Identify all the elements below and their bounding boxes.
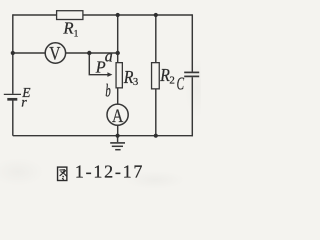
wire top: [13, 14, 193, 16]
svg-text:1-12-17: 1-12-17: [75, 162, 144, 182]
svg-text:1: 1: [74, 30, 79, 40]
wire left upper: [12, 14, 14, 94]
resistor R1: [57, 11, 83, 20]
node dot top R2: [154, 13, 158, 17]
node dot a junction: [116, 51, 120, 55]
wire R3 branch: [117, 15, 119, 136]
svg-text:r: r: [21, 96, 27, 111]
node dot bottom R2: [154, 134, 158, 138]
battery E short plate: [7, 98, 17, 101]
wire right lower: [191, 77, 193, 136]
svg-text:2: 2: [169, 75, 174, 87]
wire bottom: [13, 135, 193, 137]
resistor R2: [152, 63, 160, 89]
svg-text:3: 3: [133, 76, 138, 88]
ground: [110, 136, 125, 150]
voltmeter U-V: [45, 43, 65, 63]
svg-text:a: a: [105, 46, 113, 65]
svg-text:C: C: [177, 73, 185, 93]
svg-text:R: R: [62, 18, 74, 37]
capacitor C top plate: [184, 71, 199, 73]
svg-text:A: A: [112, 107, 124, 127]
slider arrowhead P: [107, 72, 112, 77]
capacitor C bottom plate: [184, 75, 199, 77]
caption hanzi tu (drawn): [58, 167, 67, 180]
ammeter U-A: [107, 104, 128, 125]
node dot left voltmeter junction: [11, 51, 15, 55]
node dot bottom ground: [116, 134, 120, 138]
svg-text:b: b: [105, 81, 111, 101]
wire slider tap: [89, 53, 108, 75]
wire R2 branch: [155, 15, 157, 136]
wire voltmeter row: [13, 52, 118, 54]
paper background: [0, 0, 201, 188]
node dot top R3: [116, 13, 120, 17]
resistor R3: [116, 63, 122, 88]
wire right upper: [191, 14, 193, 71]
node dot slider tap: [87, 51, 91, 55]
battery E long plate: [4, 93, 21, 95]
wire left lower: [12, 99, 14, 136]
svg-text:V: V: [49, 44, 61, 64]
